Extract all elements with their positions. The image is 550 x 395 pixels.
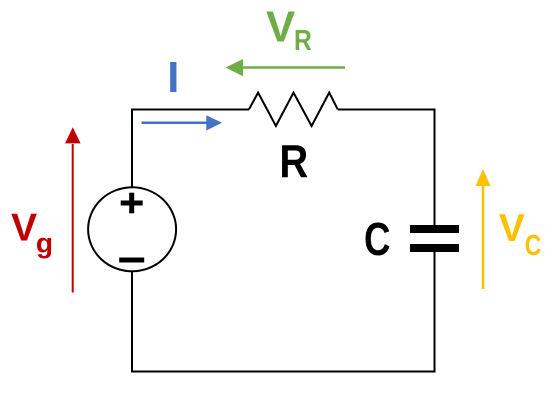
label VC (yellow) <box>499 207 541 262</box>
wire top right <box>338 109 436 111</box>
capacitor C1 bottom plate <box>410 244 459 252</box>
current arrow I (blue) <box>142 115 223 130</box>
wire left upper <box>131 110 133 187</box>
voltage source Vg circle <box>88 187 176 271</box>
voltage arrow Vg (red) <box>65 127 81 292</box>
plus terminal <box>121 193 143 214</box>
wire top left <box>131 109 249 111</box>
wire left lower <box>131 272 133 373</box>
svg-text:R: R <box>279 135 308 187</box>
label Vg (red) <box>11 206 53 258</box>
label VR (green) <box>266 2 312 57</box>
svg-text:R: R <box>294 25 312 57</box>
voltage arrow VC (yellow) <box>476 169 491 289</box>
svg-text:g: g <box>36 228 53 259</box>
svg-text:I: I <box>167 54 179 102</box>
svg-text:V: V <box>499 207 525 250</box>
svg-text:C: C <box>364 213 391 265</box>
minus terminal <box>119 258 144 263</box>
svg-text:V: V <box>266 2 295 51</box>
svg-text:C: C <box>525 230 542 262</box>
resistor R1 zigzag <box>249 93 338 126</box>
wire right upper <box>434 109 436 226</box>
wire right lower <box>434 252 436 373</box>
wire bottom <box>131 371 436 373</box>
capacitor C1 top plate <box>410 225 459 233</box>
svg-text:V: V <box>11 206 37 249</box>
voltage arrow VR (green) <box>226 59 346 76</box>
